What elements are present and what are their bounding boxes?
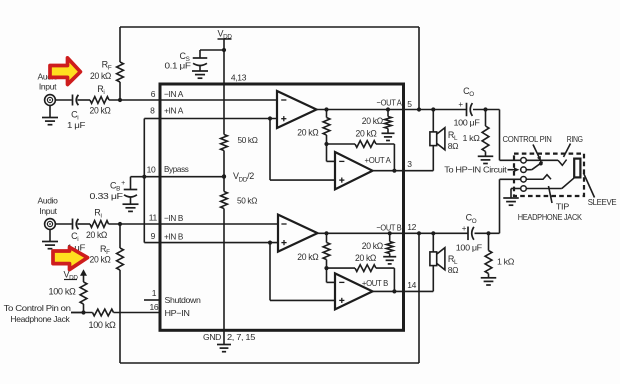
wire +IN tie line vertical bbox=[143, 119, 145, 243]
pin number 12 bbox=[407, 222, 416, 232]
ground 20k A bbox=[382, 133, 395, 140]
svg-text:50 kΩ: 50 kΩ bbox=[238, 135, 258, 145]
jack terminal sleeve (c4) bbox=[521, 186, 527, 192]
label Rf-A bbox=[102, 60, 112, 72]
node B speaker bbox=[431, 231, 435, 235]
VDD arrow for pullup bbox=[80, 269, 87, 282]
pin number 1 bbox=[152, 288, 157, 298]
wire jack A to Ci-A bbox=[55, 99, 71, 101]
label TIP bbox=[556, 202, 570, 212]
svg-text:1: 1 bbox=[152, 288, 157, 298]
resistor 20k B fb2 horizontal bbox=[327, 265, 395, 292]
op-amp B2 plus bbox=[339, 298, 344, 303]
op-amp A1 plus bbox=[281, 116, 286, 121]
node A mid bbox=[324, 142, 328, 146]
node B mid bbox=[324, 266, 328, 270]
label Headphone Jack (left) bbox=[10, 314, 70, 324]
wire Ci-B to Ri-B bbox=[78, 223, 91, 225]
svg-text:+OUT A: +OUT A bbox=[365, 155, 392, 165]
value 20k A gnd bbox=[362, 116, 384, 126]
wire control row bbox=[526, 169, 532, 171]
node VDD/2 bbox=[222, 174, 226, 178]
VDD label pullup bbox=[63, 270, 78, 282]
svg-text:14: 14 bbox=[407, 280, 416, 290]
node B pin12 fb bbox=[417, 231, 421, 235]
resistor Ri-B 20k bbox=[90, 221, 109, 228]
node 1k B bbox=[486, 231, 490, 235]
pin number 3 bbox=[407, 159, 412, 169]
svg-text:4,13: 4,13 bbox=[231, 72, 247, 82]
svg-text:20 kΩ: 20 kΩ bbox=[90, 255, 112, 265]
resistor 100k horizontal bbox=[93, 309, 114, 316]
svg-text:20 kΩ: 20 kΩ bbox=[356, 129, 378, 139]
capacitor CO A bbox=[458, 100, 472, 116]
capacitor CS 0.1uF bbox=[193, 58, 208, 66]
label RL B bbox=[448, 254, 458, 275]
svg-text:20 kΩ: 20 kΩ bbox=[86, 230, 108, 240]
label VDD/2 bbox=[233, 171, 254, 183]
svg-text:100 μF: 100 μF bbox=[456, 243, 482, 253]
wire B to jack tip row bbox=[500, 179, 521, 233]
value CO A 100uF bbox=[454, 117, 480, 127]
pin label -OUT B bbox=[376, 223, 402, 233]
label CO A bbox=[463, 86, 474, 98]
resistor 20k B fb1 vertical bbox=[323, 233, 330, 268]
svg-text:−IN A: −IN A bbox=[164, 89, 184, 99]
pin 9 +IN B wire bbox=[144, 242, 278, 244]
svg-text:HEADPHONE JACK: HEADPHONE JACK bbox=[518, 212, 583, 222]
wire Rf-B to bottom feedback run bbox=[120, 233, 419, 363]
VDD supply symbol bbox=[217, 29, 232, 41]
node bypass tie bbox=[142, 175, 146, 179]
node input B junction bbox=[118, 222, 122, 226]
wire text to 100k node bbox=[71, 312, 84, 314]
wire A2 output pin 3 bbox=[373, 170, 434, 172]
arrow to control pin row bbox=[508, 167, 520, 172]
op-amp A1 minus bbox=[281, 99, 286, 101]
wire pin12 to speaker B bbox=[432, 233, 434, 252]
label Ri-A bbox=[97, 84, 104, 96]
node 100k junction bbox=[81, 310, 85, 314]
pin number 14 bbox=[407, 280, 416, 290]
wire VDD internal rail bbox=[223, 84, 225, 135]
resistor Ri-A 20k bbox=[90, 97, 109, 104]
label HEADPHONE JACK bbox=[518, 212, 583, 222]
value Ri-B 20 kΩ bbox=[86, 230, 108, 240]
speaker RL A bbox=[430, 128, 445, 150]
value CB 0.33uF bbox=[90, 191, 123, 201]
wire A1 output to -OUT A bbox=[317, 109, 467, 111]
label CB bbox=[110, 180, 125, 193]
pin label Bypass bbox=[164, 164, 189, 174]
op-amp A2 minus bbox=[339, 160, 344, 162]
control pin contact bbox=[532, 160, 543, 169]
value Rf-B 20 kΩ bbox=[90, 255, 112, 265]
node 1k A bbox=[483, 107, 487, 111]
wire VDD to IC pin 4,13 bbox=[223, 39, 225, 84]
arrow marker B (red/yellow) bbox=[53, 247, 88, 269]
svg-text:3: 3 bbox=[407, 159, 412, 169]
ground jack bbox=[503, 198, 519, 205]
value 20k A fb1 bbox=[297, 127, 319, 137]
node A2 fb bbox=[392, 169, 396, 173]
label CONTROL PIN bbox=[503, 134, 552, 144]
svg-text:Headphone Jack: Headphone Jack bbox=[10, 314, 70, 324]
resistor Rf-B 20k bbox=[117, 224, 124, 270]
svg-text:9: 9 bbox=[151, 231, 156, 241]
op-amp B1 plus bbox=[281, 240, 286, 245]
ground below CB bbox=[123, 204, 139, 211]
resistor 1k B bbox=[485, 233, 492, 277]
wire CO A to 1k node bbox=[473, 109, 500, 111]
pin number 5 bbox=[407, 99, 412, 109]
svg-text:20 kΩ: 20 kΩ bbox=[90, 106, 112, 116]
pointer control pin bbox=[533, 145, 541, 162]
svg-text:100 kΩ: 100 kΩ bbox=[89, 320, 117, 330]
node +IN B tee bbox=[268, 241, 272, 245]
pin number 6 bbox=[151, 89, 156, 99]
capacitor Ci-A bbox=[73, 95, 79, 106]
svg-text:5: 5 bbox=[407, 99, 412, 109]
label RING bbox=[567, 134, 583, 144]
pin label Shutdown bbox=[165, 295, 202, 305]
ground below jack B bbox=[42, 229, 58, 248]
node input A junction bbox=[118, 98, 122, 102]
svg-text:Input: Input bbox=[39, 206, 57, 216]
pointer tip bbox=[549, 186, 553, 203]
value 20k B gnd bbox=[362, 241, 384, 251]
node B gnd-res bbox=[388, 231, 392, 235]
svg-text:HP−IN: HP−IN bbox=[165, 308, 190, 318]
pin 1 Shutdown stub bbox=[144, 299, 160, 301]
resistor 1k A bbox=[482, 110, 489, 157]
wire bypass to CB bbox=[130, 177, 132, 190]
wire +IN B to B2 plus bbox=[270, 243, 335, 301]
value 100k vertical bbox=[49, 286, 77, 296]
pin 6 -IN A wire internal bbox=[160, 99, 277, 101]
audio input jack A bbox=[45, 95, 56, 106]
value 50 kΩ upper bbox=[238, 135, 258, 145]
svg-text:To HP−IN Circuit: To HP−IN Circuit bbox=[444, 165, 507, 175]
wire divider to GND pin bbox=[223, 209, 225, 345]
node A fb1 bbox=[324, 107, 328, 111]
pin label +IN A bbox=[164, 106, 184, 116]
resistor 100k vertical bbox=[80, 282, 87, 313]
value 20k B fb1 bbox=[297, 252, 319, 262]
op-amp B2 bbox=[335, 273, 373, 309]
label Ri-B bbox=[94, 207, 101, 219]
svg-text:SLEEVE: SLEEVE bbox=[588, 197, 617, 207]
wire A to jack ring row bbox=[500, 110, 521, 161]
pin label +OUT A bbox=[365, 155, 392, 165]
label GND bbox=[203, 332, 221, 342]
pin number 11 bbox=[149, 213, 158, 223]
label CS bbox=[165, 51, 191, 70]
op-amp IC body (thick box) bbox=[160, 84, 404, 330]
node +IN A tee bbox=[268, 116, 272, 120]
wire B2 minus input bbox=[327, 268, 336, 282]
value Rf-A 20 kΩ bbox=[90, 71, 112, 81]
wire Rf-A feedback top run bbox=[120, 27, 419, 110]
svg-text:RING: RING bbox=[567, 134, 583, 144]
node VDD/CS junction bbox=[222, 48, 226, 52]
jack terminal control (c2) bbox=[521, 167, 527, 173]
resistor 20k A fb1 vertical bbox=[323, 110, 330, 145]
node A gnd-res bbox=[386, 107, 390, 111]
pin label -IN B bbox=[164, 213, 184, 223]
svg-text:+: + bbox=[458, 100, 463, 109]
pin label 2,7,15 bbox=[227, 332, 256, 342]
value 50 kΩ lower bbox=[237, 195, 257, 205]
pin label +OUT B bbox=[362, 278, 389, 288]
node A speaker bbox=[431, 107, 435, 111]
audio input jack B bbox=[45, 219, 56, 230]
svg-text:+: + bbox=[121, 180, 125, 187]
op-amp A1 bbox=[277, 91, 317, 128]
svg-text:11: 11 bbox=[149, 213, 158, 223]
wire CS to ground bbox=[199, 66, 201, 71]
resistor 20k A gnd bbox=[385, 110, 392, 134]
svg-text:+: + bbox=[462, 224, 467, 233]
label Ci-B bbox=[67, 231, 85, 253]
svg-text:GND: GND bbox=[203, 332, 221, 342]
svg-text:0.1 μF: 0.1 μF bbox=[165, 60, 191, 70]
sleeve bar bbox=[574, 159, 580, 178]
value 1k B bbox=[497, 256, 514, 266]
label Rf-B bbox=[100, 244, 110, 256]
speaker RL B bbox=[430, 248, 445, 270]
pin label +IN B bbox=[164, 231, 184, 241]
value Ri-A 20 kΩ bbox=[90, 106, 112, 116]
node bypass internal bbox=[222, 175, 226, 179]
wire jack B to Ci-B bbox=[55, 223, 71, 225]
label Audio Input B bbox=[38, 196, 59, 217]
wire ring row + contact bbox=[526, 160, 566, 166]
svg-text:20 kΩ: 20 kΩ bbox=[90, 71, 112, 81]
capacitor CO B bbox=[462, 224, 474, 240]
svg-text:0.33 μF: 0.33 μF bbox=[90, 191, 123, 201]
svg-text:20 kΩ: 20 kΩ bbox=[297, 252, 319, 262]
resistor 20k B gnd bbox=[386, 233, 393, 256]
wire Rf-A bottom to input node bbox=[119, 82, 121, 100]
capacitor Ci-B bbox=[73, 219, 79, 230]
svg-text:2, 7, 15: 2, 7, 15 bbox=[227, 332, 256, 342]
svg-text:8Ω: 8Ω bbox=[448, 141, 458, 151]
resistor Rf-A 20k bbox=[117, 62, 124, 82]
wire Ri-A to pin 6 bbox=[109, 99, 160, 101]
label RL A bbox=[448, 130, 458, 151]
label CO B bbox=[466, 213, 477, 225]
node A pin5 fb bbox=[417, 107, 421, 111]
svg-text:16: 16 bbox=[150, 302, 159, 312]
wire A2 minus input bbox=[327, 144, 336, 161]
pin label 4,13 bbox=[231, 72, 247, 82]
svg-text:TIP: TIP bbox=[556, 202, 570, 212]
svg-text:Audio: Audio bbox=[38, 196, 59, 206]
value 100k horizontal bbox=[89, 320, 117, 330]
wire B2 output pin 14 bbox=[373, 290, 434, 292]
ground below jack A bbox=[42, 105, 58, 124]
pin number 8 bbox=[150, 105, 155, 115]
svg-text:1 kΩ: 1 kΩ bbox=[497, 256, 514, 266]
headphone jack dashed box bbox=[514, 154, 584, 196]
svg-text:6: 6 bbox=[151, 89, 156, 99]
node B2 fb bbox=[392, 289, 396, 293]
wire CO B to 1k node bbox=[475, 232, 500, 234]
ground below CS bbox=[192, 71, 208, 78]
label Audio Input A bbox=[38, 72, 59, 92]
wire pin5 to speaker A bbox=[432, 110, 434, 132]
svg-text:−OUT A: −OUT A bbox=[377, 97, 403, 107]
wire B1 output to -OUT B bbox=[318, 232, 468, 234]
svg-text:12: 12 bbox=[407, 222, 416, 232]
pin number 9 bbox=[151, 231, 156, 241]
svg-text:−IN B: −IN B bbox=[164, 213, 184, 223]
wire Ci-A to Ri-A bbox=[78, 99, 91, 101]
pin number 16 bbox=[150, 302, 159, 312]
value 20k B fb2 bbox=[355, 253, 377, 263]
pin 16 HP-IN wire bbox=[71, 312, 160, 314]
wire sleeve row + diagonal bbox=[526, 178, 574, 189]
pointer sleeve bbox=[584, 173, 595, 198]
pin number 10 bbox=[147, 165, 156, 175]
pin 10 Bypass wire bbox=[131, 176, 225, 178]
svg-text:20 kΩ: 20 kΩ bbox=[297, 127, 319, 137]
svg-text:+IN B: +IN B bbox=[164, 231, 184, 241]
resistor 50k upper bbox=[221, 135, 228, 151]
pointer ring bbox=[564, 144, 571, 158]
ground 20k B bbox=[383, 257, 396, 264]
svg-text:+OUT B: +OUT B bbox=[362, 278, 389, 288]
wire sleeve row to ground bbox=[511, 189, 521, 198]
op-amp A2 bbox=[335, 152, 373, 189]
wire tip row + contact bbox=[526, 175, 551, 180]
ground 1k B bbox=[481, 278, 497, 285]
wire speaker B to pin 14 bbox=[432, 266, 434, 292]
svg-text:1 μF: 1 μF bbox=[67, 120, 85, 130]
wire to CS bbox=[200, 50, 224, 58]
arrow marker A (red/yellow) bbox=[50, 58, 80, 85]
ground 1k A bbox=[478, 156, 494, 163]
op-amp B1 bbox=[278, 215, 318, 252]
svg-text:To Control Pin on: To Control Pin on bbox=[4, 303, 72, 313]
svg-text:−OUT B: −OUT B bbox=[376, 223, 402, 233]
wire CB to ground bbox=[130, 197, 132, 204]
label To Control Pin on bbox=[4, 303, 72, 313]
pin label HP-IN bbox=[165, 308, 190, 318]
wire Ri-B to pin 11 bbox=[109, 223, 161, 225]
op-amp B2 minus bbox=[339, 281, 344, 283]
jack terminal tip (c3) bbox=[521, 177, 527, 183]
wire 50k to VDD/2 node bbox=[223, 151, 225, 192]
op-amp A2 plus bbox=[339, 178, 344, 183]
svg-text:Shutdown: Shutdown bbox=[165, 295, 202, 305]
capacitor CB 0.33uF bbox=[124, 190, 138, 198]
svg-text:1 kΩ: 1 kΩ bbox=[463, 133, 480, 143]
svg-text:Input: Input bbox=[39, 82, 57, 92]
wire +IN A to A2 plus bbox=[270, 119, 335, 181]
node B fb1 bbox=[324, 231, 328, 235]
value 1k A bbox=[463, 133, 480, 143]
svg-text:10: 10 bbox=[147, 165, 156, 175]
jack terminal ring (c1) bbox=[521, 158, 527, 164]
wire speaker A to pin 3 bbox=[432, 146, 434, 171]
svg-text:Bypass: Bypass bbox=[164, 164, 189, 174]
svg-text:8: 8 bbox=[150, 105, 155, 115]
svg-text:20 kΩ: 20 kΩ bbox=[355, 253, 377, 263]
pin label -OUT A bbox=[377, 97, 403, 107]
value CO B 100uF bbox=[456, 243, 482, 253]
svg-text:CONTROL PIN: CONTROL PIN bbox=[503, 134, 552, 144]
label SLEEVE bbox=[588, 197, 617, 207]
pin 8 +IN A wire bbox=[144, 118, 277, 120]
svg-text:100 kΩ: 100 kΩ bbox=[49, 286, 77, 296]
pin 11 -IN B wire bbox=[160, 223, 278, 225]
svg-text:20 kΩ: 20 kΩ bbox=[362, 241, 384, 251]
svg-text:100 μF: 100 μF bbox=[454, 117, 480, 127]
svg-text:+IN A: +IN A bbox=[164, 106, 184, 116]
op-amp B1 minus bbox=[281, 223, 286, 225]
svg-text:50 kΩ: 50 kΩ bbox=[237, 195, 257, 205]
ground IC GND pin bbox=[217, 345, 231, 352]
pin label -IN A bbox=[164, 89, 184, 99]
value 20k A fb2 bbox=[356, 129, 378, 139]
resistor 50k lower bbox=[221, 192, 228, 209]
label Ci-A bbox=[67, 110, 85, 131]
label To HP-IN Circuit bbox=[444, 165, 507, 175]
resistor 20k A fb2 horizontal bbox=[327, 141, 395, 171]
svg-text:8Ω: 8Ω bbox=[448, 265, 458, 275]
svg-text:20 kΩ: 20 kΩ bbox=[362, 116, 384, 126]
